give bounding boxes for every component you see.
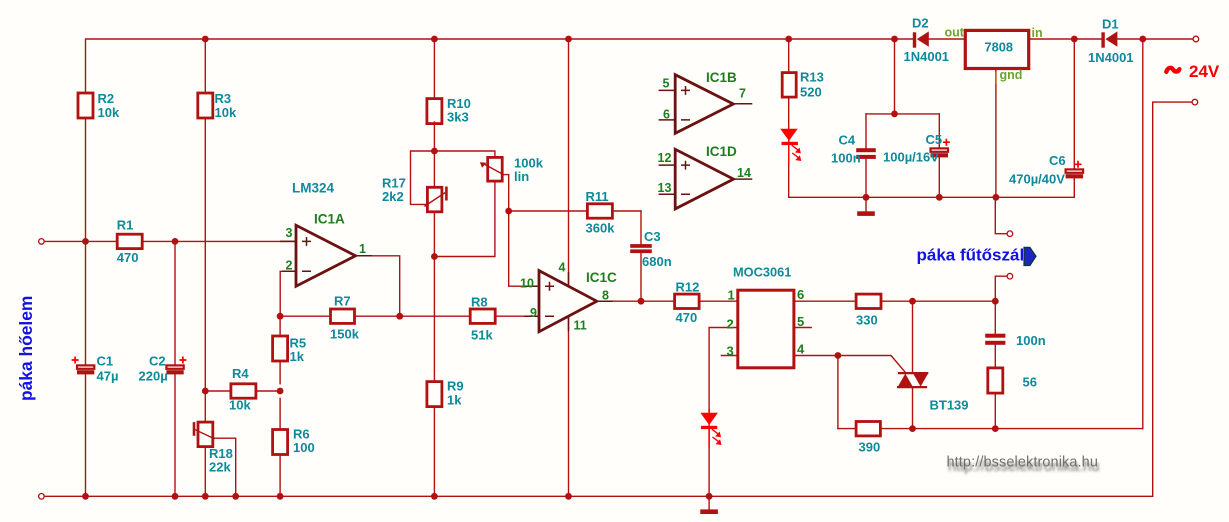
junction ground rail C5 xyxy=(936,194,943,201)
wire IC1A pin2 feedback xyxy=(280,271,296,316)
junction triac gate node xyxy=(835,352,842,359)
op-amp IC1D xyxy=(659,149,753,209)
svg-text:R9: R9 xyxy=(447,379,464,394)
op-amp IC1D pin numbers xyxy=(658,144,751,195)
wire MOC pin2 to LED2 xyxy=(709,328,738,497)
wire ground rail xyxy=(789,196,1075,198)
op-amp IC1A xyxy=(280,225,372,286)
svg-text:100µ/16V: 100µ/16V xyxy=(883,150,939,165)
wire pot bottom xyxy=(434,181,495,256)
voltage regulator 7808 xyxy=(965,30,1028,68)
wire right outer rail xyxy=(1153,102,1195,496)
svg-text:680n: 680n xyxy=(642,254,672,269)
svg-text:R3: R3 xyxy=(215,91,232,106)
op-amp IC1B xyxy=(659,75,753,134)
wire triac branch xyxy=(912,301,914,428)
svg-text:2k2: 2k2 xyxy=(382,189,404,204)
svg-text:1N4001: 1N4001 xyxy=(904,49,950,64)
svg-text:1k: 1k xyxy=(447,393,462,408)
wire MOC pin4 to triac gate xyxy=(794,356,906,374)
capacitor C5 xyxy=(883,132,950,165)
junction top rail R10 xyxy=(431,36,438,43)
resistor R9 xyxy=(427,379,464,408)
wire pot wiper to IC1C pin10 xyxy=(502,175,539,287)
junction pot wiper R11 node xyxy=(505,208,512,215)
svg-text:D2: D2 xyxy=(912,16,929,31)
wire C6 branch xyxy=(1073,39,1075,197)
svg-text:3: 3 xyxy=(286,226,293,240)
svg-text:7: 7 xyxy=(739,86,746,100)
wire C4 branch xyxy=(865,114,867,197)
capacitor C3 xyxy=(630,229,671,269)
svg-text:5: 5 xyxy=(797,314,804,329)
svg-text:BT139: BT139 xyxy=(930,398,969,413)
terminal heater top xyxy=(1007,231,1013,237)
svg-text:150k: 150k xyxy=(330,327,360,342)
capacitor C4 xyxy=(831,133,876,166)
svg-text:C3: C3 xyxy=(644,229,661,244)
svg-text:gnd: gnd xyxy=(1000,68,1023,82)
capacitor C1 xyxy=(72,354,119,384)
potentiometer 100k lin xyxy=(480,156,544,185)
op-amp IC1A pin numbers xyxy=(286,181,367,273)
svg-text:R11: R11 xyxy=(586,189,609,204)
junction IC1A feedback node xyxy=(277,313,284,320)
svg-text:IC1D: IC1D xyxy=(706,144,737,159)
svg-text:C1: C1 xyxy=(97,354,114,369)
svg-text:páka hőelem: páka hőelem xyxy=(16,296,36,401)
wire C5 branch xyxy=(938,114,940,197)
LED LED2 xyxy=(700,409,721,448)
svg-text:3k3: 3k3 xyxy=(447,110,469,125)
svg-text:470: 470 xyxy=(676,310,698,325)
svg-text:1: 1 xyxy=(359,242,366,256)
svg-text:2: 2 xyxy=(727,316,734,331)
resistor R3 xyxy=(198,91,237,120)
wire snubber branch xyxy=(994,301,996,428)
junction R10 R17 node xyxy=(431,148,438,155)
svg-text:2: 2 xyxy=(286,259,293,273)
svg-text:51k: 51k xyxy=(471,328,493,343)
junction bottom rail R9 xyxy=(431,493,438,500)
resistor R1 xyxy=(117,218,142,266)
resistor R12 xyxy=(675,280,700,326)
capacitor 100n snubber xyxy=(985,333,1045,348)
wire C3 branch xyxy=(640,211,642,301)
junction triac top node xyxy=(909,298,916,305)
svg-text:10k: 10k xyxy=(215,105,237,120)
svg-text:1k: 1k xyxy=(290,349,305,364)
svg-text:páka fűtőszál: páka fűtőszál xyxy=(917,246,1025,265)
trimmer R18 xyxy=(194,422,233,474)
wire C2 branch xyxy=(174,241,176,496)
wire IC1C output R12 row xyxy=(597,300,738,302)
junction C3 R12 node xyxy=(638,298,645,305)
LED LED1 xyxy=(780,125,801,164)
optocoupler MOC3061 xyxy=(733,265,794,368)
svg-text:11: 11 xyxy=(574,319,587,333)
svg-text:22k: 22k xyxy=(209,460,231,475)
junction ground rail 7808 gnd xyxy=(993,194,1000,201)
svg-text:100: 100 xyxy=(293,440,315,455)
junction bottom rail LED2 ground xyxy=(706,493,713,500)
ground symbol below LED2 xyxy=(700,496,718,514)
junction R4 left xyxy=(202,388,209,395)
wire IC1C supply pin11 xyxy=(568,317,570,497)
diode D1 xyxy=(1088,17,1134,66)
svg-text:R12: R12 xyxy=(676,280,700,295)
svg-text:R4: R4 xyxy=(232,366,249,381)
svg-text:56: 56 xyxy=(1023,375,1037,390)
svg-text:lin: lin xyxy=(514,169,529,184)
op-amp IC1B pin numbers xyxy=(663,70,747,122)
svg-text:100n: 100n xyxy=(1016,333,1046,348)
terminal 24V top xyxy=(1193,36,1199,42)
resistor R10 xyxy=(427,96,471,125)
svg-text:C6: C6 xyxy=(1049,153,1066,168)
junction top rail R3 xyxy=(202,36,209,43)
resistor 390 xyxy=(856,422,880,455)
resistor R2 xyxy=(78,91,120,120)
svg-text:R13: R13 xyxy=(800,70,824,85)
svg-text:8: 8 xyxy=(602,288,609,302)
watermark URL xyxy=(947,455,1100,476)
resistor R8 xyxy=(470,295,495,343)
junction bottom rail C1 xyxy=(82,493,89,500)
svg-text:R7: R7 xyxy=(334,294,351,309)
svg-text:14: 14 xyxy=(737,166,751,180)
wire R17 wiper loop xyxy=(411,151,435,204)
wire R3 R4 R18 branch xyxy=(204,39,206,496)
svg-text:R1: R1 xyxy=(117,218,134,233)
svg-text:10: 10 xyxy=(520,277,534,291)
wire IC1A output xyxy=(356,256,400,316)
wire right inner rail xyxy=(1142,39,1144,429)
junction snubber bottom node xyxy=(992,425,999,432)
wire 7808 gnd pin xyxy=(995,69,997,198)
svg-text:7808: 7808 xyxy=(985,40,1013,55)
junction bottom rail R6 xyxy=(277,493,284,500)
svg-text:24V: 24V xyxy=(1189,62,1220,81)
svg-text:R8: R8 xyxy=(471,295,488,310)
junction C4 C5 top node xyxy=(891,111,898,118)
arrow icon paka futoszal xyxy=(1024,248,1036,266)
svg-text:C5: C5 xyxy=(926,132,943,147)
optocoupler MOC3061 pin numbers xyxy=(727,287,806,359)
svg-text:520: 520 xyxy=(800,85,822,100)
junction IC1A output node xyxy=(396,313,403,320)
svg-text:6: 6 xyxy=(797,287,804,302)
svg-text:D1: D1 xyxy=(1102,17,1119,32)
svg-text:13: 13 xyxy=(658,181,672,195)
svg-text:4: 4 xyxy=(797,341,805,356)
junction triac bottom node xyxy=(909,425,916,432)
svg-text:10k: 10k xyxy=(229,398,251,413)
svg-text:360k: 360k xyxy=(586,221,616,236)
wire R5 R6 branch xyxy=(279,316,281,496)
junction top rail R13 xyxy=(785,36,792,43)
wire heater terminal bottom xyxy=(995,276,1010,301)
junction R4 right xyxy=(277,388,284,395)
op-amp IC1C pin numbers xyxy=(520,261,617,333)
capacitor C2 xyxy=(139,354,187,384)
terminal 24V bottom xyxy=(1192,99,1198,105)
wire R11 row xyxy=(509,210,641,212)
wire pot top xyxy=(434,151,495,157)
wire R10 R17 R9 branch xyxy=(433,39,435,496)
wire R13 LED1 branch xyxy=(788,39,790,197)
resistor 56 xyxy=(988,368,1037,393)
wire thermocouple input R1 row xyxy=(41,240,296,242)
capacitor C6 xyxy=(1009,153,1083,187)
svg-text:1N4001: 1N4001 xyxy=(1088,50,1134,65)
junction snubber top node xyxy=(992,298,999,305)
svg-text:9: 9 xyxy=(530,306,537,320)
svg-text:1: 1 xyxy=(728,288,735,303)
terminal thermocouple plus xyxy=(39,239,45,245)
resistor R13 xyxy=(782,70,824,100)
op-amp IC1C xyxy=(524,271,613,332)
junction bottom rail R18 wiper xyxy=(232,493,239,500)
svg-text:470: 470 xyxy=(117,250,139,265)
svg-text:3: 3 xyxy=(727,343,734,358)
wire left rail C1 branch xyxy=(85,118,87,496)
svg-text:330: 330 xyxy=(856,313,878,328)
terminal thermocouple minus xyxy=(39,494,45,500)
svg-text:390: 390 xyxy=(859,440,881,455)
ground symbol near C4 xyxy=(857,197,875,216)
svg-text:6: 6 xyxy=(663,108,670,122)
wire MOC pin5 stub xyxy=(794,327,811,329)
wire C4 C5 top xyxy=(866,39,939,114)
junction R1 right C2 xyxy=(172,238,179,245)
svg-text:100n: 100n xyxy=(831,151,861,166)
junction top rail right rail xyxy=(1139,36,1146,43)
svg-text:4: 4 xyxy=(559,261,566,275)
junction top rail C4 C5 xyxy=(891,36,898,43)
svg-text:IC1B: IC1B xyxy=(706,70,737,85)
svg-text:http://bsselektronika.hu: http://bsselektronika.hu xyxy=(947,455,1099,471)
junction bottom rail C2 xyxy=(172,493,179,500)
resistor R11 xyxy=(586,189,616,236)
junction R17 bottom node xyxy=(431,253,438,260)
wire gate node to 390 row xyxy=(837,356,839,429)
svg-text:5: 5 xyxy=(663,77,670,91)
wire R4 row xyxy=(205,390,280,392)
junction bottom rail R18 xyxy=(202,493,209,500)
triac BT139 xyxy=(897,373,969,412)
svg-text:47µ: 47µ xyxy=(97,369,119,384)
wire R18 wiper xyxy=(213,438,235,496)
wire MOC pin3 stub xyxy=(721,355,737,357)
wire heater terminal top xyxy=(995,197,1010,233)
svg-text:470µ/40V: 470µ/40V xyxy=(1009,172,1065,187)
wire top rail to 24V terminal xyxy=(1118,38,1196,40)
svg-text:C4: C4 xyxy=(839,133,856,148)
svg-text:220µ: 220µ xyxy=(139,369,168,384)
terminal heater bottom xyxy=(1007,273,1013,279)
junction bottom rail IC1C pin11 xyxy=(565,493,572,500)
junction top rail IC1C supply xyxy=(565,36,572,43)
svg-text:out: out xyxy=(945,26,965,40)
junction R1 left xyxy=(82,238,89,245)
wire IC1C supply pin4 xyxy=(568,39,570,286)
resistor R4 xyxy=(229,366,256,413)
trimmer R17 xyxy=(382,176,446,212)
svg-text:C2: C2 xyxy=(149,354,166,369)
svg-text:10k: 10k xyxy=(98,105,120,120)
label 24V AC xyxy=(1166,62,1220,81)
wire top rail between 7808 and D1 xyxy=(1029,38,1102,40)
resistor 330 xyxy=(856,294,881,327)
wire bottom rail xyxy=(41,495,1152,497)
resistor R5 xyxy=(273,336,307,365)
pin stub 7808 gnd xyxy=(995,72,997,84)
wire MOC pin6 330 row xyxy=(794,300,995,302)
junction top rail C6 xyxy=(1071,36,1078,43)
wire R7 R8 row xyxy=(280,315,539,317)
wire 390 row xyxy=(838,428,1143,430)
resistor R7 xyxy=(330,294,360,342)
svg-text:IC1C: IC1C xyxy=(586,270,617,285)
svg-text:IC1A: IC1A xyxy=(314,212,345,227)
svg-text:12: 12 xyxy=(658,151,672,165)
wire top rail between D2 and 7808 xyxy=(929,38,965,40)
svg-text:LM324: LM324 xyxy=(292,181,335,196)
svg-text:MOC3061: MOC3061 xyxy=(733,265,791,280)
junction ground rail C4 xyxy=(863,194,870,201)
diode D2 xyxy=(904,16,950,65)
wire top rail left xyxy=(86,39,914,93)
resistor R6 xyxy=(273,427,315,456)
svg-text:R2: R2 xyxy=(98,91,115,106)
svg-text:in: in xyxy=(1032,26,1043,40)
